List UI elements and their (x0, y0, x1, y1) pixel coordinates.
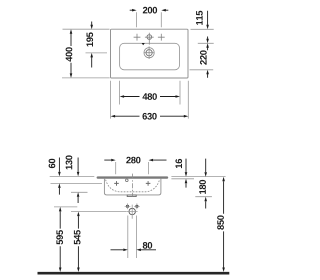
dim 16 arrow tails (185, 159, 187, 188)
dim 400 line (70, 33, 72, 74)
hidden bowl interior (dashed) (106, 180, 160, 192)
hidden tap hole star right (146, 181, 151, 186)
faucet hole center circle (147, 35, 152, 40)
195 arrows (90, 25, 93, 30)
dimension labels as glyph paths (49, 7, 224, 249)
400 arrows (70, 29, 73, 34)
dim 200 arrow tails (130, 9, 169, 11)
dim 480 line (124, 96, 177, 98)
dim 200 extension lines (137, 12, 162, 27)
faucet hole left cross (134, 34, 141, 41)
drain outlet crosshair (127, 205, 138, 219)
drain inner circle (146, 50, 152, 56)
washbasin outer rim rect (top view 630x400) (111, 29, 189, 78)
630 arrows (111, 115, 116, 118)
280 arrows (111, 159, 116, 162)
label 545 (74, 230, 81, 244)
dim 115/220 extension lines (190, 29, 214, 70)
dim 180 arrow tails (205, 159, 207, 209)
dim 545 line (77, 216, 79, 268)
dim 195 arrow tails (91, 22, 93, 68)
dim 220 arrow tails (207, 37, 209, 78)
dim 630 line (115, 115, 185, 117)
dim 280 arrow tails (104, 159, 166, 161)
label 80 (143, 242, 153, 249)
label 400 (66, 47, 73, 61)
dim 115 arrow tails (207, 11, 209, 51)
dim 180 lower extension line (fitting bottom) (195, 196, 212, 198)
label 595 (56, 230, 63, 244)
dim 280 extension lines (116, 162, 149, 174)
label 280 (126, 157, 140, 164)
220 bottom arrow (up) (206, 70, 209, 75)
130 arrows (77, 172, 80, 177)
80 arrows (123, 249, 128, 252)
drain crosshair (144, 46, 153, 59)
basin body outline (104, 179, 160, 195)
115 bottom arrow (up) + 220 top arrow (down) at y43.3 (206, 43, 209, 48)
label 220 (200, 50, 207, 64)
200 arrows (132, 9, 137, 12)
drain outlet circle (129, 208, 135, 214)
480 arrows (120, 95, 125, 98)
label 200 (143, 7, 157, 14)
ceramic rim bar (97, 176, 169, 178)
dim 60 ref line (tap level) (51, 182, 103, 184)
dim 545 ref line (drain level) (71, 211, 127, 213)
drain fitting under body (127, 195, 136, 197)
595 arrows (59, 207, 62, 212)
180 arrows (204, 172, 207, 177)
dim 195 ref line at drain level (86, 52, 108, 54)
hidden tap hole star left (114, 181, 119, 186)
fixing bolt hole left (126, 205, 129, 208)
dim 16 extension lines (rim top, rim bottom) (171, 177, 225, 179)
dim 595 line (59, 211, 61, 268)
faucet hole right cross (158, 34, 165, 41)
dim 850 line (223, 181, 225, 268)
dim 60 arrow tails (58, 158, 60, 195)
label 130 (66, 155, 73, 169)
dim 80 arrow tails (111, 249, 157, 251)
front view arrowheads (58, 159, 225, 272)
115 top arrow (down) (206, 25, 209, 30)
dim 595 ref line (bolt holes level) (54, 206, 77, 208)
label 115 (196, 11, 203, 25)
small hole circle (126, 179, 129, 182)
label 630 (143, 113, 157, 120)
top view arrowheads (70, 9, 209, 118)
label 850 (217, 215, 224, 229)
dim 480 extension lines (120, 81, 180, 105)
60 arrows (58, 172, 61, 177)
dim 130 ref line (71, 191, 88, 193)
inner basin bowl rounded rect (120, 43, 180, 70)
label 195 (86, 32, 93, 46)
drain outer circle (144, 48, 154, 58)
dim 630 extension lines (111, 81, 189, 119)
left rim-top extension line (50, 175, 95, 177)
label 60 (49, 159, 56, 168)
dim 80 extension lines (128, 216, 137, 259)
545 arrows (77, 212, 80, 217)
16 arrows (185, 172, 188, 177)
center line (dash-dot) (131, 174, 133, 197)
dim 130 arrow tails (77, 158, 79, 204)
overflow marker triangle on bowl top edge (142, 43, 145, 45)
label 16 (175, 159, 182, 168)
label 180 (199, 180, 206, 194)
dim 400 extension lines (62, 29, 110, 78)
floor line (38, 272, 230, 275)
850 arrows (222, 177, 225, 182)
fixing bolt hole right (135, 205, 138, 208)
label 480 (143, 93, 157, 100)
